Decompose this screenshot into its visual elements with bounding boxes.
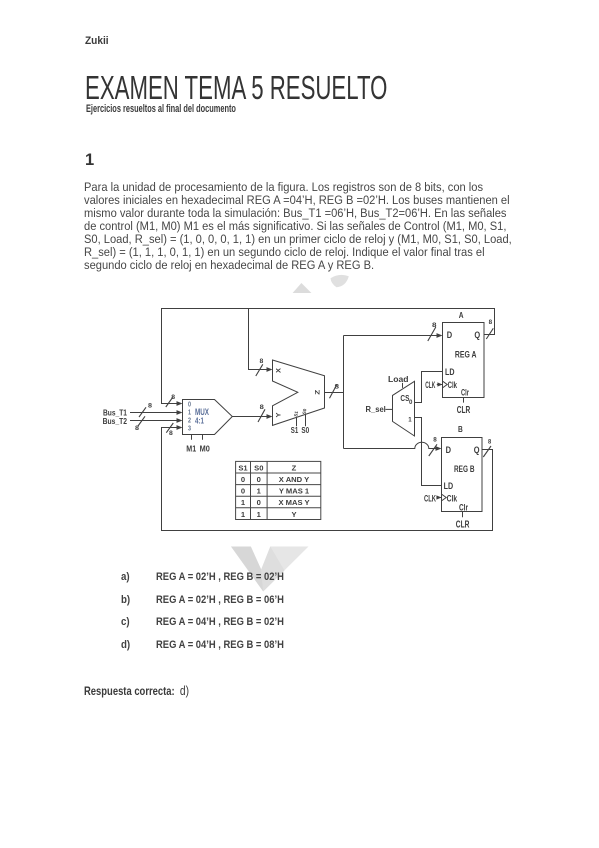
- svg-text:4:1: 4:1: [195, 416, 204, 425]
- svg-text:Q: Q: [474, 445, 480, 455]
- svg-text:0: 0: [241, 475, 245, 484]
- svg-text:R_sel: R_sel: [366, 404, 386, 414]
- svg-text:Clr: Clr: [459, 502, 468, 512]
- svg-text:8: 8: [488, 438, 491, 445]
- svg-text:8: 8: [148, 403, 152, 410]
- svg-text:Bus_T2: Bus_T2: [103, 416, 128, 426]
- svg-text:D: D: [447, 330, 453, 340]
- svg-text:CLR: CLR: [456, 520, 470, 531]
- svg-text:8: 8: [169, 430, 173, 437]
- svg-text:S1: S1: [238, 463, 248, 472]
- svg-text:1: 1: [241, 498, 246, 507]
- svg-text:M0: M0: [200, 443, 210, 453]
- svg-text:Y MAS 1: Y MAS 1: [279, 487, 310, 496]
- svg-text:B: B: [458, 424, 463, 434]
- svg-text:8: 8: [135, 425, 139, 432]
- svg-text:8: 8: [432, 322, 437, 329]
- svg-text:LD: LD: [445, 367, 455, 377]
- svg-text:Y: Y: [291, 510, 296, 519]
- svg-text:S0: S0: [301, 425, 309, 435]
- svg-text:0: 0: [257, 498, 261, 507]
- svg-text:Clr: Clr: [461, 387, 469, 397]
- svg-text:8: 8: [260, 358, 264, 365]
- svg-text:0: 0: [409, 399, 413, 406]
- svg-text:8: 8: [489, 319, 493, 326]
- svg-text:D: D: [446, 445, 452, 455]
- svg-text:S0: S0: [302, 408, 308, 415]
- svg-text:LD: LD: [444, 481, 454, 491]
- svg-text:8: 8: [171, 394, 175, 401]
- svg-text:X: X: [276, 367, 283, 373]
- svg-text:CLK: CLK: [425, 380, 435, 390]
- svg-text:Z: Z: [292, 463, 297, 472]
- svg-text:S0: S0: [254, 463, 263, 472]
- svg-text:1: 1: [257, 510, 262, 519]
- svg-text:A: A: [459, 310, 464, 320]
- svg-text:Clk: Clk: [447, 493, 458, 503]
- svg-text:X MAS Y: X MAS Y: [278, 498, 309, 507]
- svg-text:Z: Z: [314, 390, 321, 395]
- svg-text:CLR: CLR: [457, 405, 471, 416]
- svg-text:3: 3: [188, 423, 191, 432]
- svg-text:S1: S1: [291, 425, 299, 435]
- svg-text:8: 8: [433, 437, 437, 444]
- svg-text:0: 0: [241, 487, 245, 496]
- svg-text:1: 1: [408, 416, 412, 423]
- svg-text:S1: S1: [293, 410, 299, 417]
- svg-text:8: 8: [260, 404, 264, 411]
- svg-text:1: 1: [241, 510, 246, 519]
- svg-text:Clk: Clk: [448, 380, 458, 390]
- svg-text:M1: M1: [186, 443, 196, 453]
- svg-text:CLK: CLK: [424, 493, 436, 503]
- svg-text:X AND Y: X AND Y: [279, 475, 309, 484]
- svg-text:REG B: REG B: [454, 464, 475, 474]
- svg-text:1: 1: [257, 487, 262, 496]
- svg-text:8: 8: [335, 384, 340, 391]
- svg-text:Q: Q: [474, 330, 480, 340]
- svg-text:0: 0: [257, 475, 261, 484]
- svg-text:Load: Load: [388, 374, 409, 384]
- svg-text:Y: Y: [276, 412, 283, 418]
- svg-text:REG A: REG A: [455, 349, 477, 359]
